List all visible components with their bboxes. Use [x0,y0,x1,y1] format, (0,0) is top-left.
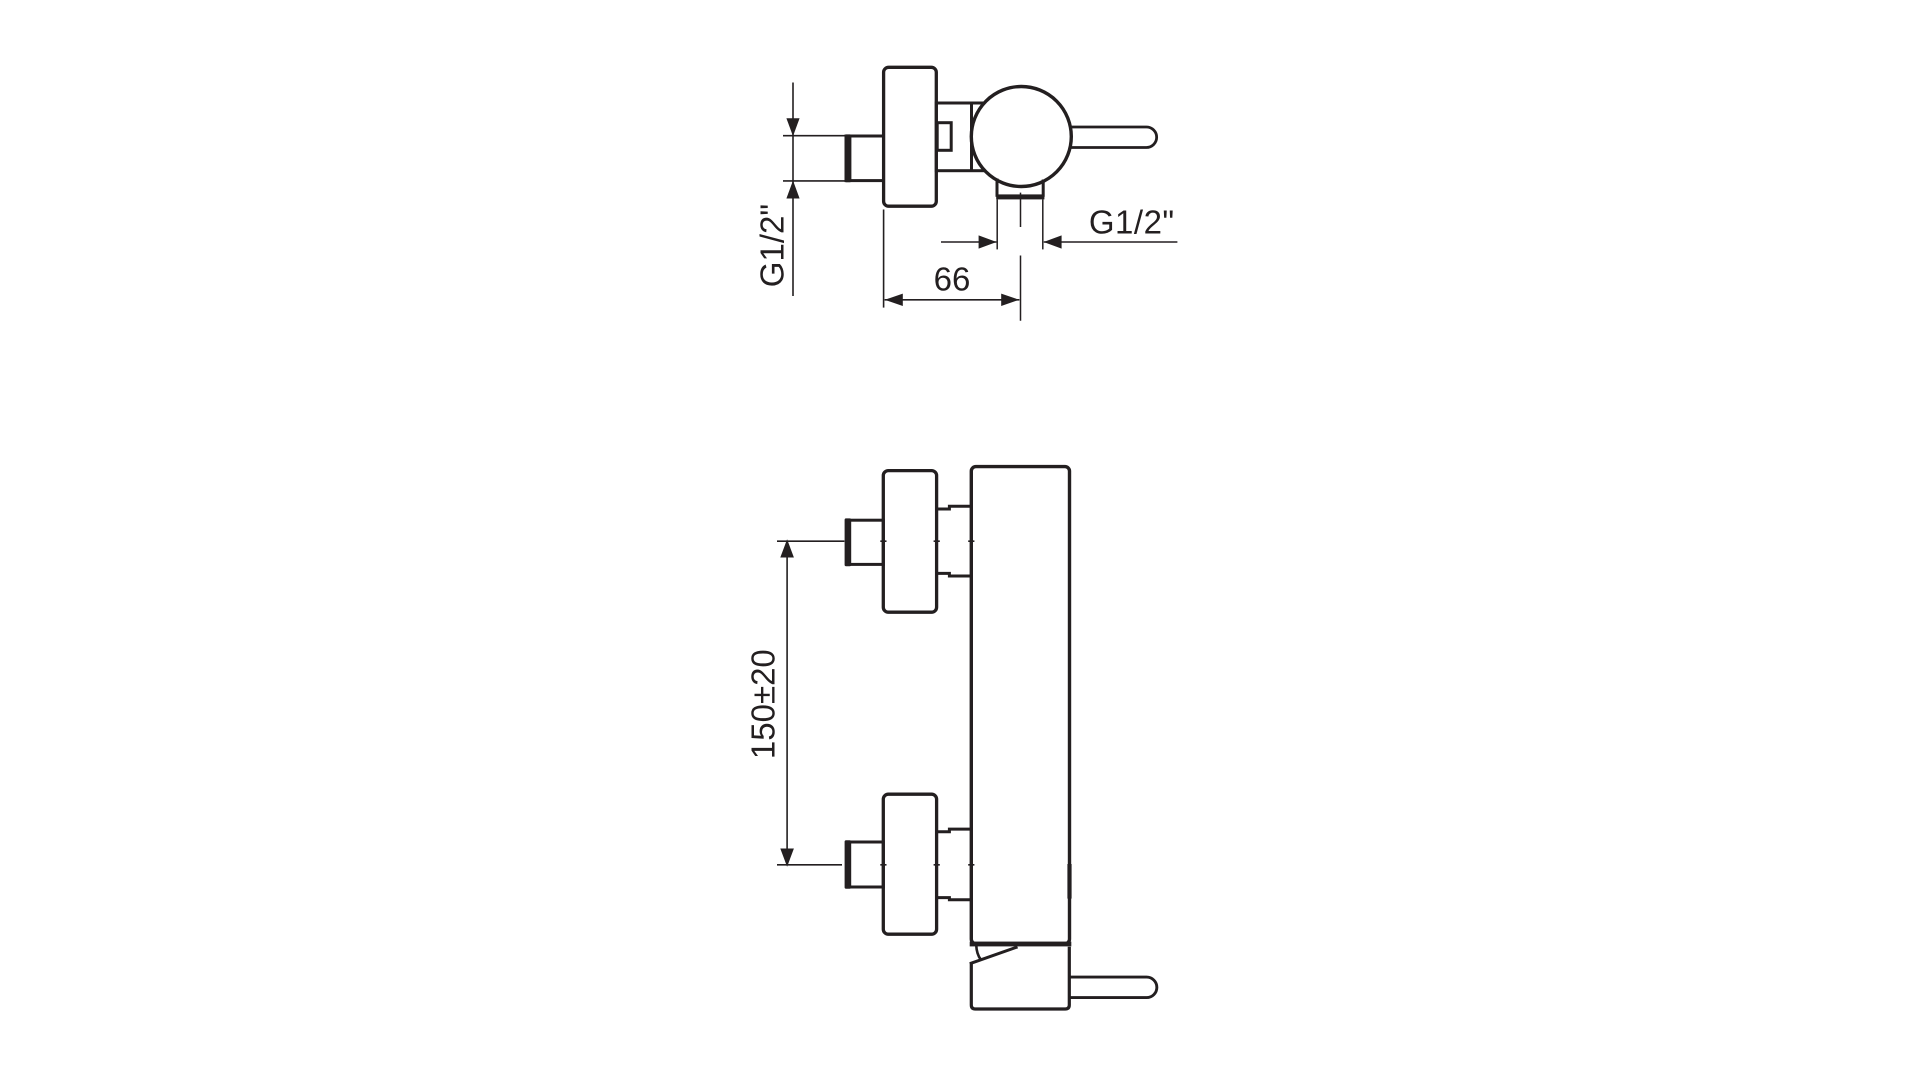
handle diagonal edge [970,947,1018,964]
outlet centerline [1020,193,1022,321]
svg-text:G1/2": G1/2" [1089,204,1175,241]
top connector upper profile [937,506,972,509]
body bottom thick bar [970,942,1072,947]
arrowhead down (top) [786,118,799,136]
arrowhead right-pointing [979,235,997,248]
top pipe thick bar [845,518,852,566]
svg-text:66: 66 [934,261,971,298]
top connector lower profile [937,573,972,576]
dimension G1/2 outlet right segment [1044,241,1178,243]
arrowhead left-pointing [1044,235,1062,248]
outlet extension line left [996,199,998,249]
bottom pipe (front view) [847,842,884,887]
valve body circle (top view) [971,87,1071,187]
vertical dimension line G1/2 (left) [792,83,794,297]
main body (front view) [971,467,1069,944]
pipe end thick bar (top view) [845,134,852,182]
handle block (front view) [971,947,1069,1009]
centerline dashes bottom row [880,864,974,866]
dimension G1/2 outlet left segment [941,241,996,243]
outlet thick bar [996,194,1044,199]
extension tick bottom (150 dim) [777,864,842,866]
svg-text:150±20: 150±20 [744,649,781,759]
connector block (top view) [936,103,984,171]
extension tick top (150 dim) [777,540,844,542]
body right edge seam [1067,864,1071,899]
arrowhead 66 left [885,294,903,306]
lever bar (front view) [1070,977,1157,998]
outlet left wall [996,179,999,197]
joint line at circle tangent [970,103,973,171]
extension line flange left edge (66 dim) [883,210,885,308]
supply pipe (top view) [846,136,884,181]
top escutcheon (front view) [883,471,936,613]
handle flap arc [976,945,981,960]
centerline dashes top row [880,540,974,542]
arrowhead 150 top [780,539,794,557]
svg-text:G1/2": G1/2" [753,204,790,287]
bottom connector lower profile [937,898,972,900]
top pipe (front view) [847,520,884,564]
wall flange (top view) [884,67,937,206]
extension tick bottom (pipe lower edge) [783,180,846,182]
small square notch (top view) [937,123,951,151]
bottom escutcheon (front view) [883,794,936,934]
bottom connector upper profile [937,829,972,832]
bottom pipe thick bar [845,840,852,889]
lever handle (top view) [1063,127,1157,148]
arrowhead 66 right [1001,294,1019,306]
arrowhead 150 bottom [780,849,794,867]
outlet extension line right [1042,199,1044,249]
dimension line 150 [786,541,788,865]
arrowhead up (bottom) [786,181,799,199]
extension tick top (pipe upper edge) [783,135,846,137]
dimension line 66 [885,299,1020,301]
outlet right wall [1042,180,1045,197]
